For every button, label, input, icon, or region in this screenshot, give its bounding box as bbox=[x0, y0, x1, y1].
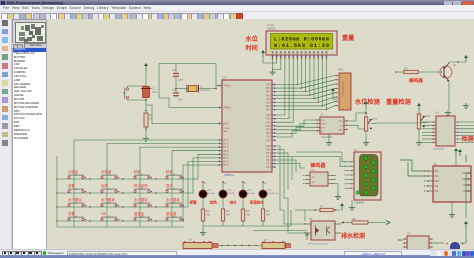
svg-text:R3: R3 bbox=[206, 209, 210, 213]
svg-text:ULN2003A: ULN2003A bbox=[433, 148, 444, 151]
LCD LM016L body bbox=[266, 31, 337, 55]
svg-text:停止加热: 停止加热 bbox=[134, 183, 148, 188]
pin U2 right bbox=[344, 128, 348, 130]
wire kp riser4 bbox=[172, 151, 218, 178]
wire right rail bbox=[465, 155, 467, 162]
resistor pack RP1 bbox=[339, 73, 351, 110]
svg-text:L:020mm H:000mm: L:020mm H:000mm bbox=[274, 37, 329, 43]
pin U2 left bbox=[316, 130, 320, 132]
svg-text:进水: 进水 bbox=[230, 200, 238, 205]
pin opto r bbox=[335, 223, 341, 225]
svg-text:100: 100 bbox=[206, 213, 211, 217]
COMPIM pin green R2 bbox=[372, 169, 376, 173]
pin U1 P2 bbox=[272, 125, 276, 127]
ground RV2 bbox=[416, 140, 422, 146]
svg-text:P3.3: P3.3 bbox=[266, 157, 271, 159]
wire bbox=[242, 198, 244, 209]
wire bus diagonal bbox=[302, 80, 335, 88]
wire bus diagonal bbox=[326, 106, 335, 110]
svg-text:重量: 重量 bbox=[342, 34, 355, 42]
wire bus diagonal bbox=[322, 101, 335, 106]
LED D2 bbox=[219, 190, 227, 198]
wire LCD data bbox=[276, 58, 310, 95]
resistor R6 bbox=[261, 209, 264, 221]
svg-text:U5: U5 bbox=[309, 217, 313, 221]
wire bbox=[290, 210, 292, 226]
pin U1 left bbox=[218, 85, 222, 87]
pin U1 P3 bbox=[272, 166, 276, 168]
pin U1 P0 bbox=[272, 94, 276, 96]
svg-text:P1.7: P1.7 bbox=[224, 165, 229, 167]
power arrow U9 bbox=[454, 148, 458, 155]
resistor R5 bbox=[241, 209, 244, 221]
wire crystal left bbox=[176, 88, 187, 90]
svg-text:RV1: RV1 bbox=[372, 117, 378, 121]
pin RP1 bbox=[335, 83, 338, 85]
junction bbox=[89, 220, 90, 221]
pin U8 r bbox=[429, 242, 433, 244]
pin motor bbox=[446, 243, 447, 244]
ground Q1 bbox=[445, 110, 451, 116]
pin U1 P3 bbox=[272, 156, 276, 158]
wire LCD data bbox=[276, 58, 314, 99]
wire bbox=[418, 71, 442, 73]
wire right rail2 bbox=[465, 173, 467, 218]
wire bus v1 bbox=[276, 146, 284, 210]
wire emitter bbox=[448, 81, 450, 110]
ground COMPIM bbox=[349, 205, 355, 211]
pin U1 left bbox=[218, 123, 222, 125]
MCU U1 AT89C52 bbox=[222, 80, 272, 172]
svg-text:COMPIM: COMPIM bbox=[354, 202, 364, 205]
power VCC arrow (reset) bbox=[144, 63, 148, 70]
svg-text:AT89C52: AT89C52 bbox=[224, 174, 235, 177]
svg-text:P2.7: P2.7 bbox=[266, 140, 271, 142]
svg-text:U8: U8 bbox=[407, 232, 411, 236]
wire bbox=[292, 157, 346, 167]
pin COMPIM bbox=[346, 165, 354, 167]
wire LED bottom rail bbox=[203, 225, 291, 227]
pin U4 left bbox=[422, 121, 436, 123]
wire bbox=[396, 71, 404, 73]
svg-text:水位检测: 水位检测 bbox=[355, 98, 380, 106]
wire RS bbox=[276, 58, 285, 115]
svg-text:IN2: IN2 bbox=[435, 175, 439, 178]
wire keypad row bbox=[57, 178, 184, 180]
terminal arrow bbox=[386, 221, 390, 225]
pin U1 left bbox=[218, 107, 222, 109]
wire U2 gnd bbox=[328, 134, 330, 140]
svg-text:XTAL2: XTAL2 bbox=[224, 106, 232, 110]
pin opto r bbox=[335, 232, 341, 234]
svg-text:100: 100 bbox=[226, 213, 231, 217]
svg-text:IN3: IN3 bbox=[435, 185, 439, 188]
pin RP1 bbox=[335, 100, 338, 102]
pin U1 P1 bbox=[218, 146, 222, 148]
svg-text:C1: C1 bbox=[152, 87, 156, 91]
junction bbox=[342, 222, 344, 224]
svg-text:ALE: ALE bbox=[224, 130, 229, 133]
svg-text:P1: P1 bbox=[354, 148, 358, 152]
LCD pin bbox=[292, 55, 294, 58]
pin COMPIM bbox=[346, 183, 354, 185]
wire bbox=[341, 210, 343, 211]
wire LCD data bbox=[276, 58, 302, 88]
svg-text:U4: U4 bbox=[435, 111, 439, 115]
pin U3 left bbox=[305, 174, 310, 176]
pin U1 P2 bbox=[272, 128, 276, 130]
svg-text:Q1: Q1 bbox=[453, 63, 457, 67]
svg-text:P0.3: P0.3 bbox=[266, 95, 271, 97]
wire bbox=[341, 222, 352, 224]
svg-text:分钟减: 分钟减 bbox=[101, 169, 112, 174]
pin U1 P2 bbox=[272, 132, 276, 134]
wire bbox=[418, 129, 420, 140]
svg-text:P2.5: P2.5 bbox=[266, 133, 271, 135]
svg-text:P1.3: P1.3 bbox=[224, 151, 229, 153]
wire wiper to RV2 bbox=[371, 122, 419, 125]
button keypad r4c4 bbox=[166, 216, 182, 221]
pin XTAL1 wire bbox=[216, 85, 218, 87]
svg-text:PSEN: PSEN bbox=[224, 128, 230, 130]
COMPIM pin green R1 bbox=[372, 161, 376, 165]
wire RST to U1 bbox=[146, 105, 218, 124]
button keypad r2c3 bbox=[134, 188, 150, 193]
LCD pin bbox=[301, 55, 303, 58]
svg-text:R5: R5 bbox=[246, 209, 250, 213]
power arrow motor bbox=[464, 221, 468, 228]
button keypad r1c1 bbox=[68, 174, 84, 179]
svg-text:显示: 显示 bbox=[166, 184, 173, 188]
wire LCD data bbox=[276, 58, 297, 85]
svg-text:OK: OK bbox=[101, 212, 107, 216]
pin U1 P0 bbox=[272, 105, 276, 107]
LCD pin bbox=[272, 55, 274, 58]
wire U2-DI bbox=[276, 131, 316, 137]
pin U2 left bbox=[316, 123, 320, 125]
wire U2-CH0 bbox=[276, 124, 316, 130]
wire LED4 top bbox=[262, 182, 264, 191]
COMPIM pin green R4 bbox=[372, 186, 376, 190]
svg-text:U2: U2 bbox=[320, 113, 324, 117]
pin COMPIM bbox=[346, 161, 354, 163]
wire E bbox=[276, 58, 293, 122]
pin U9 right bbox=[466, 190, 471, 192]
svg-text:P0.1: P0.1 bbox=[266, 88, 271, 90]
pin U9 right bbox=[466, 172, 471, 174]
ground U4 top bbox=[463, 103, 469, 109]
svg-text:R6: R6 bbox=[266, 209, 270, 213]
LCD pin bbox=[276, 55, 278, 58]
svg-text:EN1: EN1 bbox=[435, 180, 440, 183]
wire kp row2 bbox=[184, 158, 218, 193]
svg-text:P1.6: P1.6 bbox=[224, 162, 229, 164]
wire bus diagonal bbox=[318, 97, 335, 102]
svg-text:水位: 水位 bbox=[246, 35, 259, 43]
pot RV1 bbox=[364, 117, 367, 131]
wire xtal top bbox=[159, 64, 216, 89]
transistor Q1 bbox=[440, 63, 452, 82]
pin U1 P0 bbox=[272, 108, 276, 110]
svg-text:RESPACK-8: RESPACK-8 bbox=[342, 81, 345, 95]
svg-text:W:01.5k9 01:20: W:01.5k9 01:20 bbox=[274, 43, 329, 49]
wire bbox=[418, 110, 420, 114]
junction bbox=[155, 220, 156, 221]
wire LCD data bbox=[276, 58, 326, 109]
junction bbox=[56, 220, 57, 221]
junction bbox=[89, 178, 90, 179]
svg-text:D2: D2 bbox=[228, 188, 232, 192]
svg-text:P1.5: P1.5 bbox=[224, 158, 229, 160]
LED D4 bbox=[259, 190, 267, 198]
wire bbox=[398, 239, 403, 241]
wire LCD data bbox=[276, 58, 306, 92]
ADC U2 ADC0832 bbox=[320, 117, 344, 134]
LCD pin bbox=[305, 55, 307, 58]
wire to opto2 bbox=[288, 198, 303, 233]
wire bbox=[145, 127, 147, 136]
wire bbox=[263, 57, 277, 63]
svg-text:RST: RST bbox=[224, 122, 230, 126]
svg-text:LED-RED: LED-RED bbox=[208, 193, 216, 195]
svg-text:D1: D1 bbox=[208, 188, 212, 192]
motor M1 bbox=[450, 242, 459, 251]
wire xtal left rail bbox=[158, 64, 160, 99]
svg-text:P2.2: P2.2 bbox=[266, 122, 271, 124]
LCD pin bbox=[321, 55, 323, 58]
pin U3 right bbox=[328, 179, 336, 181]
svg-text:P0.2: P0.2 bbox=[266, 92, 271, 94]
svg-text:P2.0: P2.0 bbox=[266, 115, 271, 117]
pin U9 left bbox=[426, 180, 433, 182]
svg-text:秒减: 秒减 bbox=[166, 169, 173, 174]
pin U1 P2 bbox=[272, 136, 276, 138]
pin U1 P2 bbox=[272, 121, 276, 123]
pin U4 right bbox=[455, 141, 474, 143]
wire collector bbox=[449, 62, 466, 63]
pin U1 P3 bbox=[272, 159, 276, 161]
svg-text:30pF: 30pF bbox=[178, 100, 184, 102]
pin U1 P2 bbox=[272, 139, 276, 141]
pin U1 P0 bbox=[272, 98, 276, 100]
pin U9 right bbox=[466, 184, 471, 186]
wire bbox=[365, 108, 367, 117]
pin COMPIM bbox=[346, 170, 354, 172]
wire bus v4 bbox=[276, 157, 292, 181]
svg-text:LM016L: LM016L bbox=[267, 28, 277, 31]
svg-text:P1.4: P1.4 bbox=[224, 154, 229, 156]
pin U4 right bbox=[455, 135, 474, 137]
svg-text:CLK: CLK bbox=[339, 121, 344, 123]
wire bus v2 bbox=[276, 150, 288, 199]
junction bbox=[365, 112, 367, 114]
COMPIM pin green L3 bbox=[364, 174, 368, 178]
LED D1 bbox=[199, 190, 207, 198]
wire bbox=[242, 221, 244, 226]
svg-text:水上限加: 水上限加 bbox=[134, 197, 148, 202]
svg-text:P3.5: P3.5 bbox=[266, 164, 271, 166]
button keypad r3c1 bbox=[68, 202, 84, 207]
pin U1 P1 bbox=[218, 157, 222, 159]
wire LED3 top bbox=[242, 182, 244, 191]
svg-text:蜂鸣器: 蜂鸣器 bbox=[311, 162, 327, 169]
svg-text:加热: 加热 bbox=[209, 200, 218, 205]
wire keypad bottom bbox=[57, 226, 184, 228]
ground bbox=[143, 136, 149, 142]
button keypad r1c3 bbox=[134, 174, 150, 179]
pin RP1 bbox=[335, 92, 338, 94]
resistor R8 bbox=[352, 221, 368, 224]
wire U2-CS bbox=[276, 120, 316, 126]
svg-text:加热: 加热 bbox=[101, 183, 108, 188]
pin U4 right bbox=[455, 121, 474, 123]
LCD pin names bbox=[272, 51, 274, 53]
wire keypad left rail bbox=[56, 156, 58, 227]
junction bbox=[122, 220, 123, 221]
svg-text:检测: 检测 bbox=[462, 135, 474, 143]
wire kp riser2 bbox=[107, 144, 218, 178]
pin U9 left bbox=[426, 170, 433, 172]
pin U1 P1 bbox=[218, 143, 222, 145]
wire U2 CLK bbox=[348, 113, 366, 121]
svg-text:设置: 设置 bbox=[68, 183, 75, 188]
pin U8 r bbox=[429, 246, 433, 248]
COMPIM pin green R3 bbox=[372, 178, 376, 182]
LCD pin bbox=[296, 55, 298, 58]
pin U1 P1 bbox=[218, 164, 222, 166]
wire LED2 top bbox=[222, 182, 224, 191]
wire bbox=[333, 95, 338, 99]
pin U3 right bbox=[328, 183, 336, 185]
svg-text:P2.4: P2.4 bbox=[266, 130, 271, 132]
svg-text:10uF: 10uF bbox=[152, 90, 158, 94]
pin U1 P0 bbox=[272, 84, 276, 86]
wire U9 gnd bbox=[451, 202, 453, 212]
wire bbox=[433, 242, 444, 244]
button keypad r2c4 bbox=[166, 188, 182, 193]
button keypad r2c2 bbox=[101, 188, 117, 193]
svg-text:30pF: 30pF bbox=[178, 80, 184, 82]
svg-text:GND: GND bbox=[338, 130, 343, 132]
junction bbox=[56, 206, 57, 207]
svg-text:U9: U9 bbox=[433, 162, 437, 166]
svg-text:R8: R8 bbox=[352, 217, 356, 221]
wire LED1 top bbox=[202, 182, 204, 191]
wire bottom bus bbox=[253, 230, 307, 232]
wire keypad column bbox=[171, 177, 173, 227]
svg-text:保温缺水: 保温缺水 bbox=[249, 200, 265, 205]
pin U4 left bbox=[422, 141, 436, 143]
junction bbox=[89, 192, 90, 193]
pin U1 P0 bbox=[272, 87, 276, 89]
wire bbox=[202, 226, 204, 230]
wire RW bbox=[276, 58, 289, 119]
wire bus v5 bbox=[276, 160, 296, 172]
pin U4 right bbox=[455, 138, 474, 140]
button keypad r3c2 bbox=[101, 202, 117, 207]
junction bbox=[155, 192, 156, 193]
wire bus diagonal bbox=[297, 76, 335, 85]
svg-text:P3.6: P3.6 bbox=[266, 167, 271, 169]
LCD screen bbox=[271, 34, 333, 50]
wire U2 DO bbox=[348, 125, 366, 129]
pin COMPIM bbox=[346, 187, 354, 189]
pin U2 left bbox=[316, 126, 320, 128]
LCD pin bbox=[317, 55, 319, 58]
wire crystal right bbox=[199, 88, 216, 90]
resistor R7 bbox=[320, 208, 333, 211]
capacitor C2 bbox=[173, 74, 179, 77]
pin U1 P3 bbox=[272, 145, 276, 147]
svg-text:P2.6: P2.6 bbox=[266, 137, 271, 139]
button K-reset bbox=[123, 88, 129, 100]
wire to U3 bbox=[276, 164, 305, 169]
svg-text:100: 100 bbox=[266, 213, 271, 217]
wire keypad column bbox=[139, 177, 141, 227]
svg-text:重量加: 重量加 bbox=[134, 211, 145, 216]
LED D3 bbox=[239, 190, 247, 198]
RTC U3 bbox=[310, 172, 328, 186]
resistor R4 bbox=[221, 209, 224, 221]
svg-text:RV2: RV2 bbox=[425, 114, 431, 118]
pin RP1 bbox=[335, 105, 338, 107]
LCD pin bbox=[284, 55, 286, 58]
power arrow RV2 bbox=[417, 103, 421, 110]
junction bbox=[122, 206, 123, 207]
ground LCD bbox=[272, 58, 274, 70]
pin U4 right bbox=[455, 128, 474, 130]
svg-text:LED-RED: LED-RED bbox=[248, 193, 256, 195]
pin U3 left bbox=[305, 179, 310, 181]
junction bbox=[155, 206, 156, 207]
wire to opto bbox=[284, 210, 303, 224]
svg-text:LED-YELLOW: LED-YELLOW bbox=[268, 193, 279, 195]
wire bbox=[145, 70, 147, 86]
svg-text:C2: C2 bbox=[172, 68, 176, 72]
wire U9 left bus2 bbox=[408, 162, 426, 176]
power arrow Q1 bbox=[464, 55, 468, 62]
svg-text:报警: 报警 bbox=[190, 200, 198, 205]
junction bbox=[122, 178, 123, 179]
pin U9 left bbox=[426, 185, 433, 187]
svg-text:P0.0: P0.0 bbox=[266, 85, 271, 87]
pin U8 bbox=[403, 246, 407, 248]
button keypad r4c3 bbox=[134, 216, 150, 221]
pin COMPIM bbox=[346, 174, 354, 176]
svg-text:P0.4: P0.4 bbox=[266, 99, 271, 101]
svg-text:R1: R1 bbox=[149, 113, 153, 117]
svg-text:P0.6: P0.6 bbox=[266, 106, 271, 108]
svg-text:IN4: IN4 bbox=[435, 190, 439, 193]
wire xtal bottom bbox=[159, 98, 218, 108]
pin opto bbox=[303, 223, 311, 225]
pin U9 left bbox=[426, 175, 433, 177]
button keypad r3c4 bbox=[166, 202, 182, 207]
wire bbox=[222, 198, 224, 209]
ground U3 bbox=[335, 194, 341, 200]
wire VEE bbox=[273, 58, 281, 70]
pin RP1 bbox=[335, 87, 338, 89]
wire bbox=[336, 184, 338, 194]
wire bus diagonal bbox=[306, 84, 335, 92]
wire kp riser1 bbox=[74, 140, 218, 178]
pin U4 left bbox=[422, 124, 436, 126]
svg-text:P1.0: P1.0 bbox=[224, 140, 229, 142]
svg-text:P3.1: P3.1 bbox=[266, 150, 271, 152]
COMPIM pin green L1 bbox=[364, 157, 368, 161]
svg-text:IN1: IN1 bbox=[435, 170, 439, 173]
svg-text:P2.3: P2.3 bbox=[266, 126, 271, 128]
